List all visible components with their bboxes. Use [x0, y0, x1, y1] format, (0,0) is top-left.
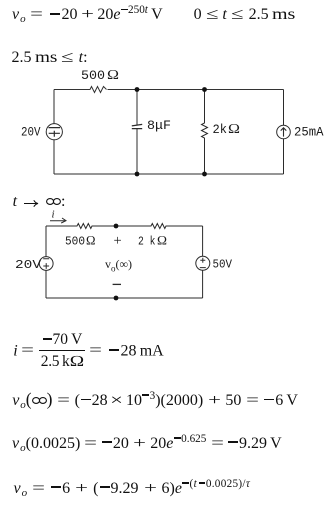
svg-text:Ω: Ω [107, 67, 119, 82]
svg-text:Ω: Ω [228, 121, 240, 136]
svg-text:500: 500 [65, 235, 85, 249]
svg-text:50V: 50V [213, 258, 233, 272]
svg-text:500: 500 [81, 69, 105, 83]
svg-text:Ω: Ω [157, 234, 167, 248]
svg-text:+: + [114, 233, 122, 249]
svg-text:vo(∞): vo(∞) [105, 257, 132, 274]
svg-text:i: i [52, 209, 55, 221]
svg-text:20V: 20V [15, 258, 42, 272]
svg-text:8μF: 8μF [147, 119, 171, 133]
svg-text:Ω: Ω [86, 234, 96, 248]
svg-text:20V: 20V [21, 126, 41, 140]
svg-text:2 k: 2 k [138, 235, 156, 249]
svg-text:2k: 2k [213, 123, 228, 137]
svg-text:25mA: 25mA [294, 126, 324, 140]
